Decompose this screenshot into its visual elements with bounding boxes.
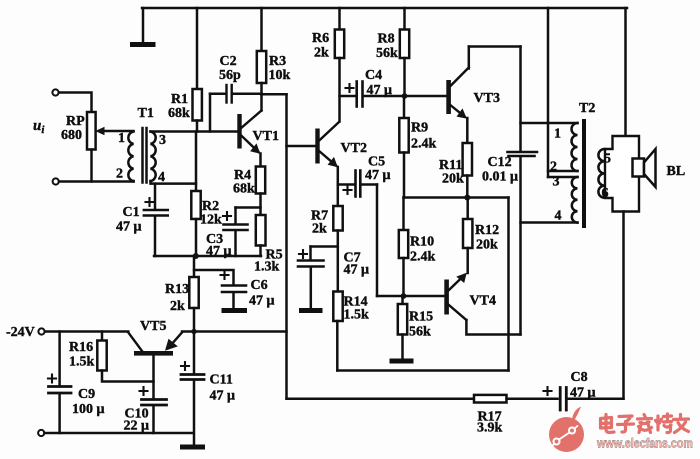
wire R2 column [195, 132, 198, 192]
svg-text:R12: R12 [475, 223, 499, 238]
svg-text:1.3k: 1.3k [254, 260, 280, 275]
svg-text:6: 6 [602, 186, 609, 201]
wire top supply rail [142, 7, 627, 10]
svg-text:47 μ: 47 μ [344, 263, 370, 278]
wire R9 bottom to junction line [403, 153, 406, 198]
svg-text:C11: C11 [210, 373, 233, 388]
svg-text:10k: 10k [269, 68, 291, 83]
svg-text:R15: R15 [409, 310, 433, 325]
svg-text:R6: R6 [312, 31, 329, 46]
watermark text fa [638, 415, 652, 433]
svg-text:12k: 12k [200, 213, 222, 228]
resistor R11 [463, 143, 472, 176]
svg-text:2k: 2k [314, 46, 329, 61]
wire R10 bottom [402, 258, 405, 296]
wire R11 R12 node column [507, 198, 510, 371]
svg-text:C8: C8 [571, 370, 588, 385]
svg-text:C1: C1 [123, 205, 140, 220]
wire R6 bottom to VT2 collector [338, 58, 341, 122]
wire inner bottom line [337, 369, 508, 372]
svg-text:20k: 20k [476, 238, 498, 253]
watermark logo circle [549, 407, 584, 453]
svg-text:1.5k: 1.5k [69, 355, 95, 370]
wire bottom rail [44, 432, 193, 435]
wire R3 bottom to node [260, 83, 263, 94]
resistor R2 [191, 191, 200, 219]
svg-text:68k: 68k [233, 182, 255, 197]
wire T2 pin2 stub [548, 170, 578, 173]
svg-text:4: 4 [555, 209, 562, 224]
wire R3 column from rail [260, 8, 263, 51]
svg-text:5: 5 [604, 152, 611, 167]
svg-text:2.4k: 2.4k [410, 250, 436, 265]
wire VT1 collector to node [260, 94, 263, 110]
wire -24V rail left [45, 330, 129, 333]
wire R7 bottom to R14 [337, 231, 340, 292]
svg-text:47 μ: 47 μ [249, 294, 275, 309]
capacitor C7 [298, 247, 338, 309]
svg-text:1: 1 [118, 131, 125, 146]
transistor VT3 [446, 68, 469, 119]
wire T2 pin4 branch [521, 221, 578, 224]
wire T1 primary bottom stub [132, 180, 135, 183]
wire VT4 collector [466, 320, 520, 335]
ground C7 [302, 308, 321, 313]
wire C6 branch [194, 270, 234, 284]
svg-text:R10: R10 [410, 235, 434, 250]
wire R15 top [401, 296, 404, 304]
resistor R15 [398, 304, 407, 335]
svg-text:T1: T1 [138, 106, 154, 121]
svg-text:2k: 2k [312, 222, 327, 237]
wire node to feedback column [262, 93, 287, 96]
wire T2 center-tap column from rail [547, 8, 550, 177]
svg-text:56p: 56p [219, 68, 241, 83]
resistor R13 [189, 277, 198, 308]
wire R9 top [403, 96, 406, 118]
input terminal (bottom) [53, 178, 59, 184]
speaker BL frame [605, 136, 639, 212]
transformer T2 core [582, 121, 586, 226]
wire T1 secondary bottom to R2 [151, 181, 197, 184]
svg-text:R8: R8 [378, 32, 395, 47]
wire C12 column upper [519, 47, 522, 151]
wire lower junction line [404, 196, 509, 199]
wire feedback column [285, 94, 288, 398]
svg-text:VT5: VT5 [140, 319, 166, 334]
potentiometer RP wiper arrow [95, 127, 104, 135]
wire VT3 collector top to C12 column [469, 45, 521, 48]
svg-text:VT4: VT4 [470, 294, 496, 309]
svg-text:C12: C12 [488, 155, 512, 170]
svg-text:-24V: -24V [6, 325, 35, 340]
svg-text:2: 2 [550, 160, 557, 175]
resistor R5 [256, 215, 266, 246]
node R2 junction dot [193, 253, 199, 259]
resistor R10 [399, 230, 408, 258]
svg-text:56k: 56k [376, 46, 398, 61]
wire input top to RP [59, 93, 92, 113]
terminal -24V [38, 328, 44, 334]
wire VT2 emitter to R7 [337, 167, 340, 206]
svg-text:47 μ: 47 μ [210, 389, 236, 404]
wire R13 top [193, 256, 196, 277]
capacitor C11 [181, 362, 204, 445]
resistor R4 [256, 167, 265, 194]
svg-text:C9: C9 [78, 387, 95, 402]
transistor VT2 [315, 123, 338, 168]
svg-text:VT1: VT1 [253, 129, 279, 144]
wire R12 bottom to VT4 emitter [466, 248, 469, 273]
svg-text:2.4k: 2.4k [411, 137, 437, 152]
capacitor C6 [221, 271, 247, 309]
watermark text zi [618, 416, 634, 432]
resistor R6 [335, 30, 344, 59]
ground bottom [183, 445, 203, 450]
wire R17 feedback line [287, 397, 475, 400]
watermark text you [674, 415, 689, 433]
wire R17 to C8 [507, 397, 558, 400]
wire R6 column from rail [338, 8, 341, 30]
node R11 R12 dot [464, 195, 470, 201]
svg-text:C2: C2 [220, 54, 237, 69]
wire T1 secondary top to VT1 base [151, 130, 238, 133]
wire RP wiper to T1 [104, 130, 134, 133]
resistor R17 [474, 395, 507, 403]
transformer T2 secondary winding [598, 149, 604, 198]
svg-text:47 μ: 47 μ [206, 244, 232, 259]
resistor R3 [257, 51, 266, 83]
wire C12 column lower [519, 158, 522, 335]
svg-text:20k: 20k [442, 172, 464, 187]
wire R10 top [402, 198, 405, 231]
svg-text:47 μ: 47 μ [365, 168, 391, 183]
svg-text:47 μ: 47 μ [570, 386, 596, 401]
svg-text:22 μ: 22 μ [124, 419, 150, 434]
svg-text:R9: R9 [411, 121, 428, 136]
capacitor C5 [338, 171, 377, 197]
resistor R16 [97, 341, 106, 371]
resistor R12 [463, 219, 472, 248]
resistor R14 [333, 292, 342, 322]
svg-text:47 μ: 47 μ [116, 220, 142, 235]
svg-text:T2: T2 [579, 101, 595, 116]
svg-text:C4: C4 [365, 68, 382, 83]
wire C9 top [58, 332, 61, 385]
wire VT2 base [287, 145, 316, 148]
svg-text:2: 2 [116, 167, 123, 182]
wire R13 bottom to -24V rail [193, 308, 196, 332]
capacitor C2 [210, 85, 262, 132]
wire R8 column from rail [403, 8, 406, 30]
wire R5 bottom [259, 246, 262, 257]
ground R15 [392, 359, 411, 364]
capacitor C1 [144, 184, 168, 256]
svg-text:R1: R1 [171, 92, 188, 107]
capacitor C9 [48, 375, 71, 434]
resistor R1 [193, 89, 202, 121]
transformer T2 primary winding 1-2 [572, 123, 578, 171]
capacitor C10 [140, 387, 167, 433]
wire VT3 base [405, 95, 447, 98]
transformer T2 primary winding 3-4 [572, 177, 578, 223]
wire R16 top [101, 332, 104, 341]
wire T2 pin3 stub [548, 176, 578, 179]
watermark text shao [656, 414, 672, 433]
wire R12 top [466, 198, 469, 220]
transistor VT5 [128, 333, 182, 398]
wire input bottom / T1 primary bottom [59, 180, 134, 183]
wire VT3 emitter to R11 [466, 118, 469, 143]
svg-text:3: 3 [553, 175, 560, 190]
wire R16 bottom to VT5 base [102, 371, 154, 382]
wire VT1 emitter to R4 [259, 154, 262, 167]
svg-text:R16: R16 [69, 340, 93, 355]
svg-text:3: 3 [159, 133, 166, 148]
transistor VT1 [237, 111, 261, 154]
wire RP bottom [90, 150, 93, 182]
svg-text:R3: R3 [269, 54, 286, 69]
svg-text:68k: 68k [168, 106, 190, 121]
wire R11 bottom [466, 176, 469, 198]
node C4/R8/R9 dot [402, 93, 408, 99]
wire T2 pin1 branch [521, 122, 578, 125]
svg-text:RP: RP [66, 114, 85, 129]
wire R15 bottom [401, 335, 404, 359]
wire R2 bottom [195, 219, 198, 256]
svg-text:100 μ: 100 μ [72, 402, 105, 417]
terminal bottom-left [38, 430, 44, 436]
wire R4 bottom R5 top [259, 194, 262, 216]
wire VT4 base [377, 295, 444, 298]
capacitor C12 [508, 152, 538, 156]
svg-text:3.9k: 3.9k [477, 421, 503, 436]
wire R1 bottom to base node [196, 121, 199, 132]
resistor R8 [400, 30, 409, 59]
resistor R9 [399, 118, 408, 153]
svg-text:1.5k: 1.5k [344, 308, 370, 323]
svg-text:1: 1 [554, 127, 561, 142]
speaker BL cone [644, 149, 656, 187]
wire speaker bottom to C8 [622, 212, 625, 399]
svg-text:ui: ui [33, 118, 45, 136]
capacitor C4 [340, 82, 405, 107]
capacitor C3 [223, 208, 261, 257]
svg-text:R13: R13 [165, 282, 189, 297]
node VT4 base dot [401, 293, 407, 299]
svg-text:680: 680 [61, 128, 82, 143]
capacitor C8 [544, 387, 624, 410]
wire C5 right column to VT4 base [376, 185, 379, 297]
svg-text:2k: 2k [170, 299, 185, 314]
wire R1 column from rail [196, 8, 199, 89]
input terminal (top) [52, 89, 58, 95]
watermark text dian [601, 415, 615, 433]
transformer T1 primary winding [128, 132, 133, 182]
wire speaker column from rail [624, 8, 627, 136]
wire R14 bottom to inner line [336, 321, 339, 371]
wire emitter junction line [154, 255, 261, 258]
transformer T1 core [143, 128, 147, 183]
transistor VT4 [444, 273, 466, 320]
node R13/C11 rail dot [191, 329, 196, 334]
svg-text:C6: C6 [251, 278, 268, 293]
potentiometer RP body [87, 112, 96, 150]
wire VT3 collector riser [468, 47, 471, 69]
svg-text:VT3: VT3 [474, 91, 500, 106]
svg-text:www.elecfans.com: www.elecfans.com [596, 436, 693, 451]
wire R8 bottom to node [403, 58, 406, 96]
svg-text:4: 4 [158, 170, 165, 185]
svg-text:56k: 56k [409, 325, 431, 340]
svg-text:47 μ: 47 μ [367, 83, 393, 98]
svg-text:VT2: VT2 [341, 141, 367, 156]
svg-text:BL: BL [667, 164, 686, 179]
wire C11 column [193, 332, 196, 373]
transformer T1 secondary winding [151, 132, 156, 182]
wire -24V rail right (VT5 emitter to feedback column) [182, 330, 287, 333]
resistor R7 [333, 206, 342, 231]
ground C6 [224, 308, 245, 313]
ground (top-left) [133, 8, 154, 45]
svg-text:0.01 μ: 0.01 μ [482, 170, 518, 185]
speaker BL driver [633, 159, 645, 177]
